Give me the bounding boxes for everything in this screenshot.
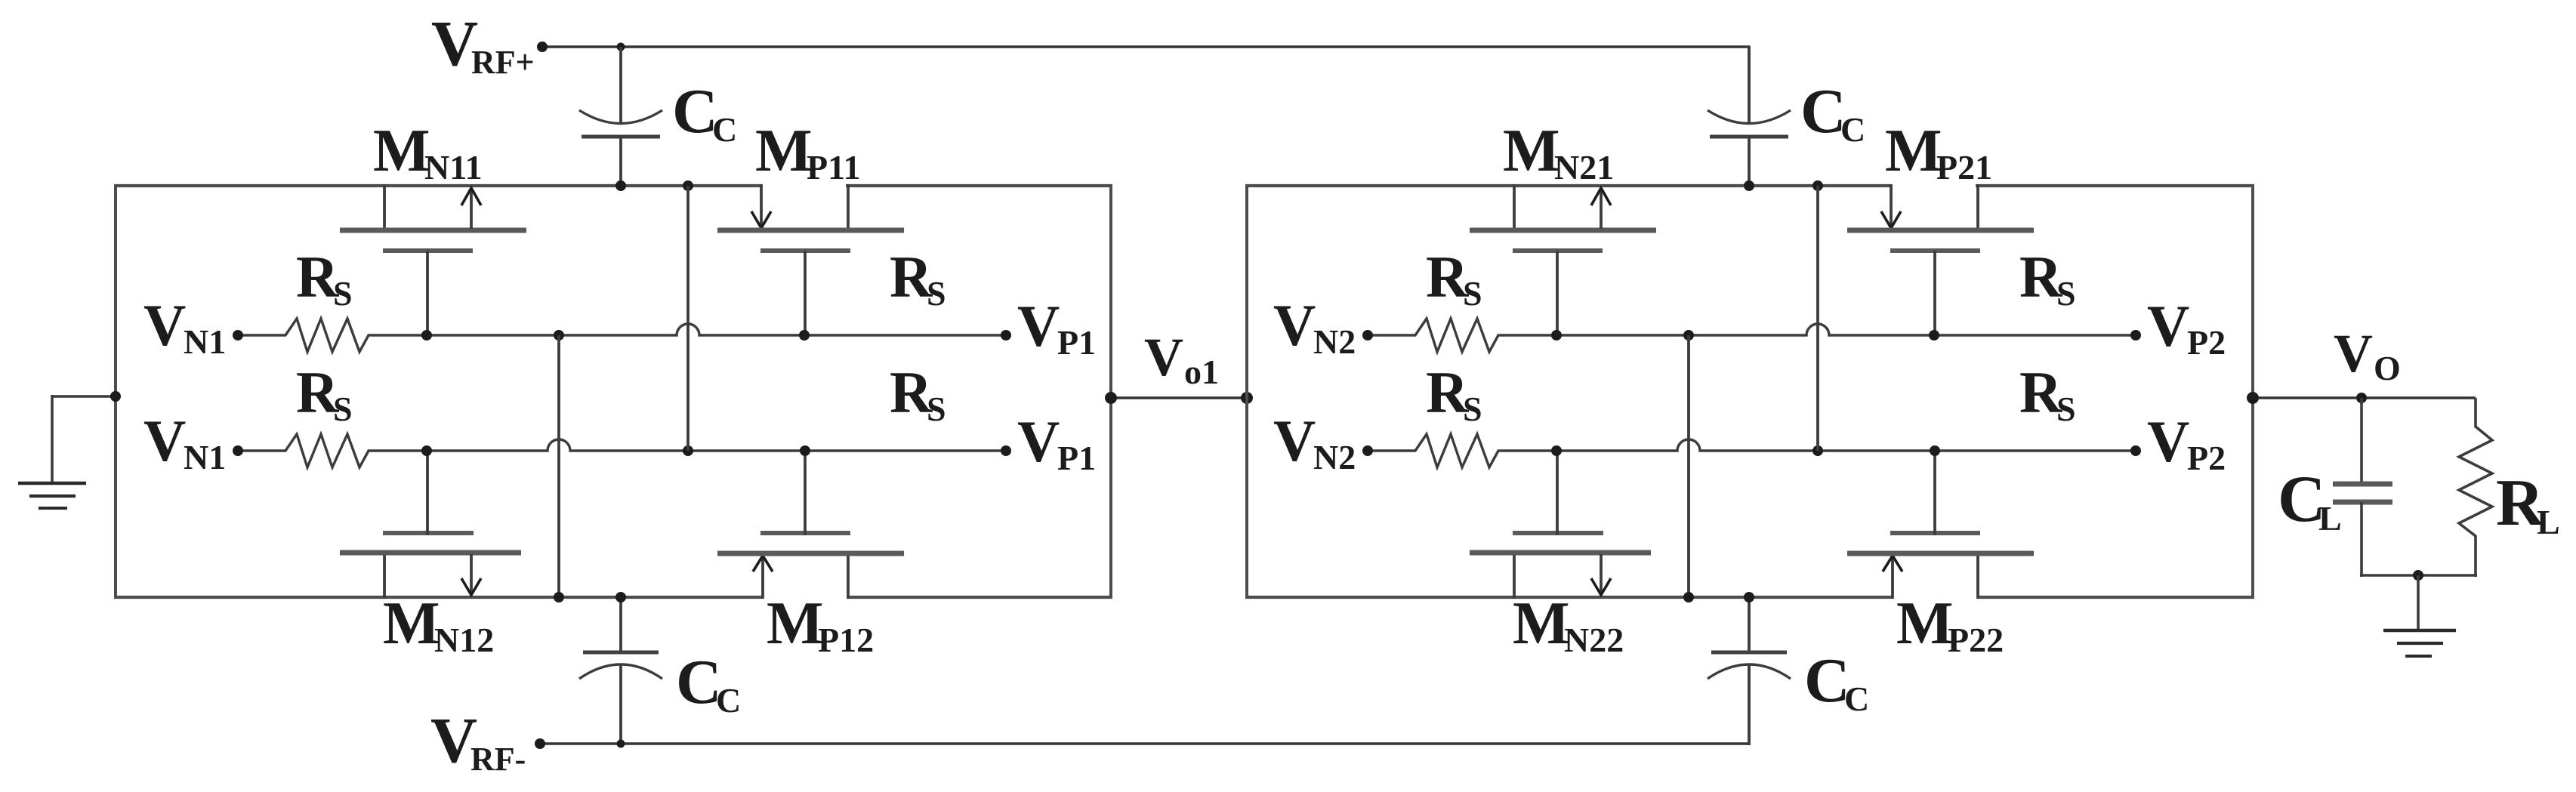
label VN2 lower [1273,408,1356,476]
label MN21 [1503,118,1614,186]
svg-text:M: M [1513,590,1570,657]
svg-text:M: M [1503,118,1560,184]
svg-text:N12: N12 [434,621,494,659]
node MN21 gate junction [1551,330,1562,341]
junction VRF+ / CC coupling cap stage 1 [617,43,625,51]
stage 1 top rail left segment [114,184,762,187]
ground symbol (left) [18,483,86,508]
node cross-wire A junction (upper) [554,330,564,341]
wire VRF- bottom distribution wire [540,665,1749,744]
svg-text:V: V [1017,408,1060,474]
node Vo1 right junction [1241,392,1253,404]
node VO junction at stage 2 output [2247,392,2259,404]
svg-text:M: M [767,590,824,657]
node VN1 terminal dot (upper) [233,330,243,341]
stage 1 box left edge wire [114,184,117,599]
node VP2 terminal dot (upper) [2130,330,2141,341]
label MP22 [1896,590,2004,659]
node CC2 bottom rail junction [1744,592,1754,602]
label MN12 [383,590,494,659]
stage 2 bottom rail right segment [1978,596,2254,599]
stage 1 bottom rail left segment [114,596,763,599]
node MP22 gate junction [1930,445,1940,456]
svg-text:P21: P21 [1936,148,1992,186]
node VP2 terminal dot (lower) [2130,445,2141,456]
node cross-wire B junction (lower) [683,445,693,456]
wire cross-coupling A stage 1 (upper row to bottom rail) [557,335,560,596]
svg-text:S: S [927,274,946,313]
svg-text:N22: N22 [1564,621,1624,659]
node Vo1 left junction [1105,392,1117,404]
resistor RS (stage2 lower-left) value label [1426,359,1482,428]
wire CL-RL bottom link [2360,574,2477,576]
node VRF- terminal dot [535,738,545,749]
stage 2 box left edge wire [1245,184,1248,599]
svg-text:M: M [755,118,813,184]
label VP2 lower [2147,408,2226,477]
wire row VN1-VP1 (lower, with resistors RS and crossover hop) [238,434,1006,467]
capacitor CC (bottom, stage 2) [1708,596,1791,745]
resistor RS (stage1 lower-left) value label [296,359,353,428]
label MN11 [373,118,483,186]
svg-text:S: S [2056,274,2076,313]
node MP21 gate junction [1929,330,1939,341]
svg-text:V: V [2147,408,2189,474]
transistor MP12 [717,449,904,599]
svg-text:N1: N1 [184,438,226,476]
label CL [2278,463,2342,538]
node VP1 terminal dot (lower) [1001,445,1011,456]
svg-text:O: O [2374,349,2401,387]
svg-text:P1: P1 [1057,439,1096,477]
stage 2 top rail right segment [1976,184,2254,187]
resistor RS (stage1 lower-right) value label [890,359,946,428]
node VN2 terminal dot (lower) [1362,445,1373,456]
label Vo1 [1144,327,1219,391]
label VN1 upper [143,292,226,361]
svg-text:N2: N2 [1313,438,1356,476]
node VRF+ terminal dot [537,42,548,52]
label VN2 upper [1273,292,1356,361]
svg-text:P12: P12 [818,621,874,659]
svg-text:M: M [383,590,440,657]
svg-text:S: S [1463,390,1482,428]
svg-text:P22: P22 [1948,621,2004,659]
svg-text:C: C [1840,110,1865,149]
label MP21 [1885,118,1992,186]
svg-text:C: C [1800,76,1846,146]
wire VO output node [2253,396,2476,399]
stage 2 bottom rail left segment [1245,596,1893,599]
transistor MP11 [717,184,904,337]
node CC1 bottom rail junction [615,592,626,602]
stage 1 right edge wire [1109,184,1112,599]
node MN11 gate junction [421,330,432,341]
svg-text:V: V [1273,408,1316,473]
node cross A bottom rail junction [554,592,564,602]
svg-text:L: L [2537,503,2560,541]
svg-text:o1: o1 [1184,353,1219,391]
node VN1 terminal dot (lower) [233,445,243,456]
svg-text:V: V [143,408,186,473]
svg-text:C: C [1804,646,1850,716]
wire row VN1-VP1 (upper, with resistors RS and crossover hop) [238,319,1006,352]
label VP2 upper [2147,293,2226,362]
svg-text:C: C [1844,680,1869,718]
resistor RS (stage2 upper-left) value label [1426,244,1482,313]
svg-text:S: S [1463,274,1482,313]
resistor RL [2459,398,2492,577]
node MP11 gate junction [799,330,810,341]
node VP1 terminal dot (upper) [1001,330,1011,341]
svg-text:C: C [716,681,741,720]
wire row VN2-VP2 (lower, with resistors RS and crossover hop) [1368,434,2136,467]
svg-text:M: M [1885,118,1942,184]
transistor MP21 [1847,184,2034,337]
label VP1 lower [1017,408,1096,477]
label VO [2334,323,2401,387]
wire VRF+ top distribution wire [542,47,1749,124]
svg-text:P2: P2 [2187,323,2226,362]
resistor RS (stage1 upper-right) value label [890,244,946,313]
resistor RS (stage2 lower-right) value label [2019,359,2076,428]
label VP1 upper [1017,293,1096,362]
svg-text:S: S [333,274,353,313]
node rail junction CC1 top [615,180,626,191]
transistor MP22 [1847,449,2034,599]
svg-text:N2: N2 [1313,322,1356,361]
svg-text:V: V [1273,292,1316,358]
svg-text:C: C [676,647,722,717]
svg-text:V: V [1144,327,1183,387]
svg-text:C: C [712,110,737,149]
svg-text:M: M [1896,590,1954,657]
transistor MN21 [1470,184,1656,337]
svg-text:L: L [2318,499,2342,538]
svg-text:S: S [2056,390,2076,428]
transistor MN12 [340,449,521,599]
wire cross-coupling B stage 1 (top rail to lower row) [686,186,690,451]
svg-text:S: S [927,390,946,428]
svg-text:RF-: RF- [470,741,526,778]
svg-text:S: S [333,390,353,428]
wire Vo1 interstage link [1111,396,1247,399]
svg-text:M: M [373,118,430,184]
svg-text:RF+: RF+ [471,44,535,81]
stage 1 top rail right segment [846,184,1112,187]
node MP12 gate junction [800,445,810,456]
stage 1 bottom rail right segment [847,596,1112,599]
svg-text:V: V [143,292,186,358]
node ground stub junction [110,391,121,402]
label MN22 [1513,590,1624,659]
capacitor CL [2333,398,2392,577]
label CC bottom stage 2 [1804,646,1869,718]
capacitor CC (bottom, stage 1) [579,596,662,745]
resistor RS (stage1 upper-left) value label [296,244,353,313]
svg-text:N11: N11 [424,148,483,186]
svg-text:N1: N1 [184,322,226,361]
wire cross-coupling B stage 2 (top rail to lower row) [1816,186,1819,451]
svg-text:N21: N21 [1554,148,1614,186]
node MN22 gate junction [1551,445,1562,456]
resistor RS (stage2 upper-right) value label [2019,244,2076,313]
capacitor CC (top, stage 2) [1708,47,1791,187]
ground symbol (right) [2383,575,2456,656]
label MP11 [755,118,861,186]
node output ground junction [2413,570,2423,581]
node rail junction cross wire stage 2 [1812,180,1823,191]
node CL tap junction [2356,393,2367,403]
node VN2 terminal dot (upper) [1362,330,1373,341]
svg-text:P11: P11 [807,148,861,186]
label VRF- [430,704,526,778]
node cross-wire B junction stage2 (lower) [1812,445,1823,456]
node rail junction cross wire stage 1 [683,180,693,191]
capacitor CC (top, stage 1) [579,47,662,187]
node cross-wire A junction stage2 (upper) [1683,330,1694,341]
label RL [2496,467,2560,541]
svg-text:C: C [672,76,718,146]
node MN12 gate junction [421,445,432,456]
label CC bottom stage 1 [676,647,741,720]
svg-text:P1: P1 [1057,323,1096,362]
stage 2 right edge wire [2251,184,2254,598]
svg-text:V: V [2334,323,2373,384]
wire row VN2-VP2 (upper, with resistors RS and crossover hop) [1368,319,2136,352]
transistor MN22 [1470,449,1651,599]
transistor MN11 [340,184,526,337]
label CC top stage 2 [1800,76,1865,149]
label CC top stage 1 [672,76,737,149]
junction VRF- / CC coupling cap stage 1 bottom [617,740,625,748]
wire cross-coupling A stage 2 (upper row to bottom rail) [1687,335,1690,596]
ground stub wire (left) [52,395,117,483]
node rail junction CC2 top [1744,180,1754,191]
stage 2 top rail left segment [1245,184,1892,187]
svg-text:V: V [2147,293,2189,359]
label MP12 [767,590,874,659]
node cross A bottom rail junction stage2 [1683,592,1694,602]
svg-text:P2: P2 [2187,439,2226,477]
label VRF+ [431,7,535,81]
svg-text:V: V [1017,293,1060,359]
label VN1 lower [143,408,226,476]
